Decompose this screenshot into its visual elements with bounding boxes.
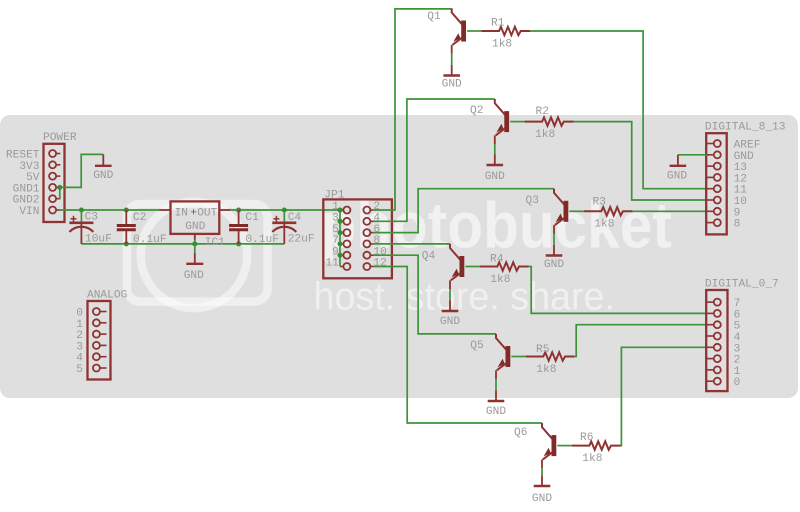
wire JP1 pin10 to Q5 collector	[374, 255, 496, 334]
ground symbol Q3	[546, 245, 563, 256]
wire Q4 base to R4	[465, 266, 479, 268]
svg-text:3: 3	[734, 343, 741, 355]
svg-text:R2: R2	[536, 106, 549, 118]
resistor R3	[584, 207, 633, 215]
svg-text:VIN: VIN	[19, 206, 39, 218]
svg-text:0.1uF: 0.1uF	[133, 234, 167, 246]
junction JP1 pin 9	[338, 253, 343, 258]
svg-text:C4: C4	[288, 212, 302, 224]
junction top rail at C2	[124, 208, 129, 213]
junction ground rail at C2	[124, 241, 129, 246]
connector POWER header	[44, 144, 65, 222]
connector ANALOG header	[88, 301, 111, 380]
svg-text:1k8: 1k8	[492, 38, 512, 50]
voltage regulator IC1 body	[171, 201, 220, 234]
resistor R1	[482, 27, 531, 35]
wire Q4 emitter to ground	[449, 289, 451, 300]
pin stub IC1 IN	[159, 209, 170, 211]
svg-text:1k8: 1k8	[536, 364, 556, 376]
wire Q5 emitter to ground	[495, 379, 497, 390]
svg-text:7: 7	[332, 235, 339, 247]
svg-text:9: 9	[332, 246, 339, 258]
wire R5 to DIGITAL pin 5	[575, 325, 707, 357]
junction ground rail at C1	[236, 241, 241, 246]
svg-text:+: +	[190, 208, 197, 220]
svg-text:GND: GND	[532, 493, 552, 505]
junction top rail at C3	[79, 208, 84, 213]
wire JP1 pin12 to Q6 collector	[374, 267, 542, 424]
ground symbol Q6	[534, 475, 551, 486]
wire VIN to IC1 IN	[60, 209, 159, 211]
svg-text:7: 7	[734, 298, 741, 310]
capacitor C3 (polarized)	[69, 210, 93, 244]
watermark camera body	[127, 204, 268, 302]
svg-text:4: 4	[373, 213, 380, 225]
svg-text:11: 11	[734, 185, 748, 197]
svg-text:1k8: 1k8	[490, 274, 510, 286]
svg-text:5: 5	[734, 321, 741, 333]
junction top rail at C4	[282, 208, 287, 213]
transistor Q2	[495, 99, 509, 144]
svg-text:10: 10	[734, 196, 748, 208]
wire ground rail	[81, 243, 284, 245]
svg-text:3: 3	[332, 213, 339, 225]
svg-text:4: 4	[76, 353, 83, 365]
svg-text:12: 12	[734, 173, 747, 185]
svg-text:GND: GND	[185, 221, 205, 233]
svg-text:Q3: Q3	[526, 195, 539, 207]
junction at GND1 pin	[57, 185, 62, 190]
wire IC1 OUT to JP1	[231, 209, 340, 211]
junction JP1 pin 3	[338, 219, 343, 224]
ground symbol Q2	[487, 154, 504, 165]
junction ground rail at IC1 GND	[192, 241, 197, 246]
wire R6 to DIGITAL pin 3	[621, 347, 707, 445]
svg-text:GND: GND	[486, 406, 506, 418]
svg-text:R1: R1	[491, 17, 505, 29]
wire Q3 emitter to ground	[553, 234, 555, 245]
svg-text:0: 0	[734, 377, 741, 389]
svg-text:GND: GND	[184, 270, 204, 282]
svg-text:R5: R5	[536, 344, 549, 356]
svg-text:3: 3	[76, 341, 83, 353]
svg-text:0: 0	[76, 308, 83, 320]
wire R4 to DIGITAL pin 6	[529, 267, 707, 314]
svg-text:3V3: 3V3	[19, 161, 39, 173]
resistor R5	[526, 352, 575, 360]
wire Q5 base to R5	[511, 356, 525, 358]
svg-text:Q6: Q6	[514, 427, 527, 439]
resistor R6	[572, 441, 621, 449]
wire JP1 pin4 to Q2 collector	[374, 99, 495, 221]
wire Q6 emitter to ground	[541, 468, 543, 475]
transistor Q5	[496, 334, 510, 379]
svg-text:22uF: 22uF	[288, 234, 315, 246]
ground symbol near DIGITAL_8_13	[670, 155, 687, 166]
svg-text:2: 2	[734, 355, 741, 367]
svg-text:GND: GND	[544, 259, 564, 271]
svg-text:1: 1	[734, 366, 741, 378]
svg-text:R3: R3	[593, 197, 606, 209]
svg-text:GND: GND	[734, 151, 754, 163]
svg-text:GND: GND	[93, 170, 113, 182]
svg-text:JP1: JP1	[324, 190, 344, 202]
svg-text:2: 2	[373, 201, 380, 213]
junction top rail at C1	[236, 208, 241, 213]
svg-text:GND1: GND1	[13, 183, 40, 195]
svg-text:5: 5	[332, 224, 339, 236]
connector DIGITAL_8_13 header	[706, 133, 727, 234]
svg-text:ANALOG: ANALOG	[87, 290, 128, 302]
svg-text:5V: 5V	[26, 172, 40, 184]
svg-text:DIGITAL_0_7: DIGITAL_0_7	[705, 279, 779, 291]
wire JP1 pin6 to Q3 collector	[374, 189, 554, 233]
svg-text:C1: C1	[245, 212, 259, 224]
junction JP1 pin 5	[338, 230, 343, 235]
transistor Q3	[554, 189, 568, 234]
photo gray background band	[0, 115, 798, 398]
svg-text:1k8: 1k8	[535, 129, 555, 141]
svg-text:12: 12	[373, 258, 386, 270]
wire Q1 base to R1	[467, 30, 481, 32]
svg-text:AREF: AREF	[734, 140, 761, 152]
svg-text:OUT: OUT	[197, 208, 217, 220]
resistor R2	[525, 117, 574, 125]
wire GND1 to ground	[60, 154, 104, 187]
wire R2 to DIGITAL pin 10	[574, 122, 708, 200]
svg-text:IN: IN	[175, 208, 188, 220]
wire Q1 emitter to ground	[451, 54, 453, 65]
svg-text:Q5: Q5	[470, 340, 483, 352]
ground symbol near POWER	[95, 154, 112, 165]
wire Q2 emitter to ground	[494, 144, 496, 154]
wire rail to ground symbol	[194, 244, 196, 253]
wire R3 to DIGITAL pin 9	[633, 210, 707, 212]
wire Q2 base to R2	[510, 121, 524, 123]
svg-text:R6: R6	[580, 432, 593, 444]
wire Q6 base to R6	[557, 445, 571, 447]
svg-text:0.1uF: 0.1uF	[245, 234, 279, 246]
svg-text:5: 5	[76, 364, 83, 376]
junction JP1 pin 7	[338, 241, 343, 246]
svg-text:6: 6	[734, 309, 741, 321]
svg-text:Q1: Q1	[427, 11, 441, 23]
watermark camera lens	[141, 202, 247, 308]
IC1 GND pin stub	[194, 234, 196, 240]
transistor Q1	[452, 8, 466, 53]
svg-text:C2: C2	[133, 212, 146, 224]
capacitor C4 (polarized)	[272, 210, 296, 244]
svg-text:GND: GND	[440, 316, 460, 328]
svg-text:9: 9	[734, 207, 741, 219]
svg-text:C3: C3	[85, 211, 98, 223]
junction top rail at JP1 pin1	[338, 208, 343, 213]
wire JP1 pin8 to Q4 collector	[374, 243, 450, 245]
svg-text:13: 13	[734, 162, 747, 174]
ground symbol Q4	[442, 300, 459, 311]
svg-text:1: 1	[76, 319, 83, 331]
resistor R4	[480, 262, 529, 270]
svg-text:DIGITAL_8_13: DIGITAL_8_13	[705, 121, 786, 133]
svg-text:6: 6	[373, 224, 380, 236]
svg-text:2: 2	[76, 330, 83, 342]
ground symbol Q5	[488, 390, 505, 401]
capacitor C2	[117, 210, 136, 244]
svg-text:11: 11	[325, 258, 339, 270]
svg-text:host. store. share.: host. store. share.	[314, 275, 615, 319]
connector DIGITAL_0_7 header	[706, 290, 727, 391]
wire JP1 pin2 to Q1 collector	[374, 9, 452, 210]
wire IC1 GND to rail	[194, 240, 196, 244]
svg-text:POWER: POWER	[43, 132, 77, 144]
ground symbol Q1	[443, 65, 460, 76]
ground symbol below IC1	[186, 253, 203, 264]
wire DIGITAL GND pin	[678, 154, 707, 156]
svg-text:10: 10	[373, 246, 387, 258]
svg-text:GND: GND	[442, 79, 462, 91]
svg-text:GND2: GND2	[13, 195, 40, 207]
svg-text:IC1: IC1	[205, 237, 225, 249]
svg-text:4: 4	[734, 332, 741, 344]
pin stub IC1 OUT	[219, 209, 230, 211]
wire Q3 base to R3	[569, 210, 583, 212]
svg-text:1k8: 1k8	[582, 453, 602, 465]
svg-text:RESET: RESET	[6, 150, 40, 162]
svg-text:10uF: 10uF	[85, 234, 112, 246]
svg-text:1k8: 1k8	[594, 219, 614, 231]
junction JP1 pin 1	[338, 208, 343, 213]
svg-text:8: 8	[373, 235, 380, 247]
svg-text:8: 8	[734, 219, 741, 231]
wire JP1 odd-pins bus	[339, 210, 341, 267]
svg-text:GND: GND	[485, 171, 505, 183]
svg-text:R4: R4	[490, 254, 504, 266]
svg-text:Q2: Q2	[470, 105, 483, 117]
svg-text:GND: GND	[667, 170, 687, 182]
svg-text:Q4: Q4	[422, 251, 436, 263]
capacitor C1	[229, 210, 248, 244]
wire GND1-GND2 short	[59, 187, 61, 198]
connector JP1 header	[323, 199, 392, 278]
transistor Q4	[450, 244, 464, 289]
wire R1 to DIGITAL pin 11	[530, 31, 707, 189]
transistor Q6	[542, 423, 556, 468]
